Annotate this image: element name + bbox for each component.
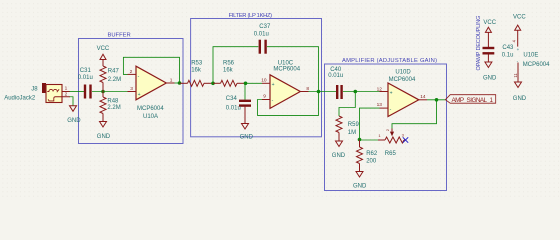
svg-text:200: 200 bbox=[366, 158, 377, 164]
capacitor C40 bbox=[328, 67, 343, 99]
wire U10D output bbox=[427, 99, 445, 101]
svg-text:U10D: U10D bbox=[395, 69, 411, 75]
wire buffer feedback loop bbox=[123, 57, 179, 83]
svg-text:R56: R56 bbox=[223, 61, 235, 67]
svg-text:MCP6004: MCP6004 bbox=[273, 67, 300, 73]
svg-text:GND: GND bbox=[483, 75, 497, 81]
svg-text:U10C: U10C bbox=[278, 61, 294, 67]
svg-text:U10E: U10E bbox=[523, 53, 538, 59]
wire feedback from output to wiper bbox=[392, 100, 437, 129]
resistor R53 bbox=[188, 61, 214, 87]
potentiometer R65 bbox=[378, 128, 406, 157]
ground (C34) bbox=[240, 124, 254, 141]
svg-text:GND: GND bbox=[97, 134, 111, 140]
svg-text:C31: C31 bbox=[80, 68, 92, 74]
svg-text:C43: C43 bbox=[502, 45, 514, 51]
svg-text:BUFFER: BUFFER bbox=[108, 33, 131, 39]
wire U10C feedback (pin 9 loop) bbox=[258, 92, 319, 116]
resistor R48 bbox=[100, 92, 121, 122]
svg-text:2: 2 bbox=[65, 91, 68, 97]
svg-text:VCC: VCC bbox=[513, 15, 526, 21]
sheet box AMPLIFIER bbox=[325, 58, 447, 191]
wire C31 to opamp input bbox=[92, 91, 128, 93]
svg-text:1: 1 bbox=[65, 86, 68, 92]
no-connect flag R65 pin 3 bbox=[403, 137, 408, 142]
svg-text:C34: C34 bbox=[226, 96, 238, 102]
svg-text:0.01u: 0.01u bbox=[328, 73, 343, 79]
ground (R48) bbox=[97, 122, 111, 141]
power flag VCC (C43) bbox=[483, 20, 496, 47]
svg-text:0.01u: 0.01u bbox=[78, 75, 93, 81]
svg-text:13: 13 bbox=[377, 102, 383, 108]
svg-text:R53: R53 bbox=[191, 61, 203, 67]
wire U10C output to C40 bbox=[309, 91, 337, 93]
node R53/R56/C37 bbox=[211, 82, 215, 86]
resistor R62 bbox=[357, 140, 378, 172]
svg-text:R48: R48 bbox=[107, 98, 119, 104]
svg-text:OPAMP DECOUPLING: OPAMP DECOUPLING bbox=[476, 16, 482, 71]
op-amp U10D bbox=[377, 69, 427, 116]
ground (U10E) bbox=[513, 82, 527, 102]
svg-text:11: 11 bbox=[513, 73, 518, 78]
ground (jack) bbox=[67, 106, 81, 124]
pin 2 bbox=[62, 96, 70, 98]
capacitor C34 bbox=[226, 83, 251, 123]
node C34 tap bbox=[244, 82, 248, 86]
wire buffer output bbox=[175, 82, 181, 84]
op-amp power unit U10E bbox=[512, 39, 551, 82]
capacitor C43 bbox=[483, 45, 515, 62]
wire node up to C37 bbox=[213, 47, 258, 84]
svg-text:VCC: VCC bbox=[97, 46, 110, 52]
node at R47/R48 divider bbox=[101, 90, 105, 94]
svg-text:+: + bbox=[138, 92, 141, 98]
sheet box FILTER bbox=[191, 13, 322, 137]
svg-text:+: + bbox=[390, 91, 393, 97]
svg-text:9: 9 bbox=[263, 93, 266, 99]
svg-text:2.2M: 2.2M bbox=[108, 77, 121, 83]
capacitor C31 bbox=[78, 68, 93, 99]
resistor R59 bbox=[336, 116, 359, 141]
svg-text:GND: GND bbox=[353, 183, 367, 189]
svg-text:GND: GND bbox=[513, 96, 527, 102]
svg-text:16k: 16k bbox=[191, 68, 202, 74]
svg-text:GND: GND bbox=[67, 118, 81, 124]
svg-text:0.01u: 0.01u bbox=[254, 32, 269, 38]
svg-text:J8: J8 bbox=[31, 86, 38, 92]
svg-text:U10A: U10A bbox=[143, 114, 158, 120]
svg-text:AMP_SIGNAL_1: AMP_SIGNAL_1 bbox=[452, 97, 494, 104]
svg-text:FILTER (LP 1KHZ): FILTER (LP 1KHZ) bbox=[229, 13, 273, 19]
node U10C output bbox=[317, 90, 321, 94]
svg-text:R62: R62 bbox=[366, 151, 378, 157]
op-amp U10A bbox=[128, 66, 175, 120]
svg-text:14: 14 bbox=[420, 94, 426, 100]
svg-text:1: 1 bbox=[170, 78, 173, 84]
op-amp U10C bbox=[261, 61, 309, 109]
wire node to R65 bbox=[360, 139, 379, 141]
svg-text:MCP6004: MCP6004 bbox=[523, 62, 550, 68]
wire node to pin10 bbox=[246, 82, 263, 84]
wire pin13 to gain network bbox=[360, 108, 380, 139]
sheet box BUFFER bbox=[79, 33, 184, 144]
wire node down to R59 bbox=[339, 92, 355, 117]
node gain network bbox=[358, 138, 362, 142]
svg-text:AudioJack2: AudioJack2 bbox=[4, 95, 36, 101]
svg-text:R65: R65 bbox=[385, 151, 397, 157]
svg-text:16k: 16k bbox=[223, 68, 234, 74]
svg-text:0.01u: 0.01u bbox=[226, 106, 241, 112]
svg-text:R47: R47 bbox=[108, 68, 120, 74]
svg-text:MCP6004: MCP6004 bbox=[137, 106, 164, 112]
svg-text:10: 10 bbox=[261, 77, 267, 83]
wire C37 right to output node bbox=[267, 47, 319, 92]
svg-text:GND: GND bbox=[240, 135, 254, 141]
global label AMP_SIGNAL_1 bbox=[445, 95, 495, 104]
svg-text:MCP6004: MCP6004 bbox=[389, 77, 416, 83]
wire jack pin1 to C31 bbox=[70, 91, 85, 93]
svg-text:+: + bbox=[272, 82, 275, 88]
svg-text:2.2M: 2.2M bbox=[107, 105, 120, 111]
svg-text:8: 8 bbox=[306, 86, 309, 92]
ground (R59) bbox=[332, 141, 346, 159]
svg-text:C37: C37 bbox=[259, 24, 271, 30]
wire to R53 bbox=[180, 82, 188, 84]
pin 1 bbox=[62, 91, 70, 93]
svg-text:AMPLIFIER (ADJUSTABLE GAIN): AMPLIFIER (ADJUSTABLE GAIN) bbox=[342, 58, 437, 64]
svg-text:GND: GND bbox=[332, 153, 346, 159]
svg-text:+: + bbox=[517, 47, 520, 52]
svg-text:1M: 1M bbox=[348, 130, 356, 136]
svg-text:3: 3 bbox=[130, 86, 133, 92]
power flag VCC (buffer) bbox=[97, 46, 110, 66]
resistor R56 bbox=[213, 61, 246, 87]
node buffer output bbox=[178, 81, 182, 85]
node U10D output bbox=[435, 98, 439, 102]
ground (R62) bbox=[353, 172, 367, 190]
svg-text:2: 2 bbox=[130, 69, 133, 75]
capacitor C37 bbox=[254, 24, 271, 54]
wire jack pin2 to ground bbox=[70, 97, 74, 106]
ground (C43) bbox=[483, 62, 497, 81]
svg-text:12: 12 bbox=[377, 86, 383, 92]
wire C40 to pin 12 bbox=[343, 91, 380, 93]
connector J8 AudioJack2 bbox=[4, 83, 70, 103]
svg-text:VCC: VCC bbox=[483, 20, 496, 26]
svg-text:R59: R59 bbox=[348, 122, 360, 128]
resistor R47 bbox=[100, 66, 121, 92]
power flag VCC (U10E) bbox=[513, 15, 526, 47]
svg-text:0.1u: 0.1u bbox=[502, 53, 514, 59]
node C40/R59 bbox=[354, 90, 358, 94]
